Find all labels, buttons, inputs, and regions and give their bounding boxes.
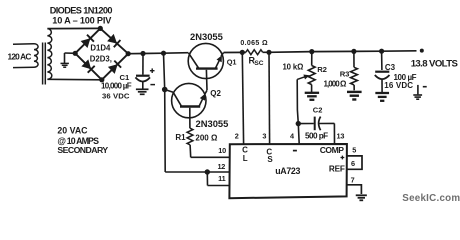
svg-text:10 kΩ: 10 kΩ xyxy=(283,62,304,71)
svg-text:uA723: uA723 xyxy=(275,166,300,176)
svg-text:20 VAC: 20 VAC xyxy=(57,126,88,136)
svg-text:DIODES 1N1200: DIODES 1N1200 xyxy=(50,6,113,16)
svg-text:C3: C3 xyxy=(385,63,396,72)
svg-text:7: 7 xyxy=(351,176,355,185)
svg-text:16 VDC: 16 VDC xyxy=(384,81,413,90)
svg-text:10 A – 100 PIV: 10 A – 100 PIV xyxy=(52,15,112,25)
svg-text:C: C xyxy=(242,145,248,154)
svg-text:Q2: Q2 xyxy=(210,89,221,98)
svg-text:D1D4: D1D4 xyxy=(90,44,111,53)
svg-text:3: 3 xyxy=(262,131,266,140)
svg-text:C2: C2 xyxy=(313,105,323,114)
svg-text:R2: R2 xyxy=(317,65,327,74)
svg-text:13.8 VOLTS: 13.8 VOLTS xyxy=(411,59,459,70)
svg-text:SeekIC.com: SeekIC.com xyxy=(402,193,460,204)
svg-text:12: 12 xyxy=(217,162,225,171)
svg-text:10: 10 xyxy=(218,146,226,155)
svg-text:10,000 µF: 10,000 µF xyxy=(101,82,132,91)
svg-text:0.065 Ω: 0.065 Ω xyxy=(240,40,268,47)
svg-text:Q1: Q1 xyxy=(227,57,237,66)
svg-text:COMP: COMP xyxy=(320,145,345,155)
svg-text:D2D3,: D2D3, xyxy=(90,54,112,63)
svg-text:11: 11 xyxy=(218,174,225,183)
svg-text:R1: R1 xyxy=(175,133,186,142)
svg-text:REF: REF xyxy=(329,165,345,174)
svg-text:2N3055: 2N3055 xyxy=(196,118,229,129)
svg-text:13: 13 xyxy=(337,131,345,140)
svg-text:L: L xyxy=(243,154,248,163)
svg-text:6: 6 xyxy=(351,159,355,168)
svg-text:SC: SC xyxy=(254,60,263,67)
svg-text:500 pF: 500 pF xyxy=(305,131,328,140)
svg-text:2N3055: 2N3055 xyxy=(190,31,223,42)
svg-text:36 VDC: 36 VDC xyxy=(102,92,130,101)
svg-text:1,000 Ω: 1,000 Ω xyxy=(324,80,348,89)
svg-text:120 AC: 120 AC xyxy=(8,51,32,61)
svg-text:2: 2 xyxy=(235,132,239,141)
svg-text:S: S xyxy=(267,155,273,164)
svg-text:SECONDARY: SECONDARY xyxy=(57,145,108,155)
svg-text:R3: R3 xyxy=(340,70,349,79)
svg-text:200 Ω: 200 Ω xyxy=(195,134,218,143)
svg-text:5: 5 xyxy=(352,146,356,155)
